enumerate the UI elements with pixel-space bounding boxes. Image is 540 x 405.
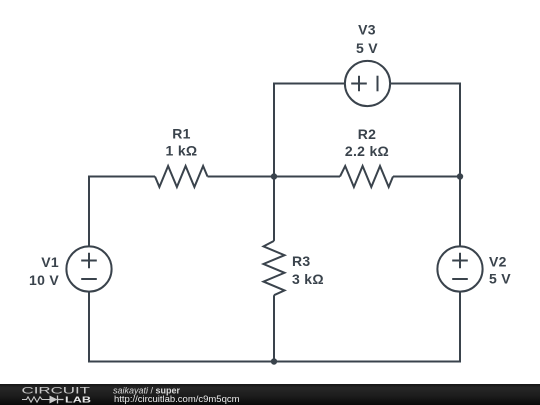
svg-text:R2: R2	[358, 126, 377, 142]
label V1 name	[41, 254, 59, 270]
resistor R3	[264, 241, 285, 295]
label V1 value 10 V	[29, 272, 59, 288]
label R2 value 2.2 kOhm	[345, 143, 389, 159]
wire left branch lower + bottom rail left (V1 bottom to node C)	[89, 292, 274, 362]
wire right branch lower + bottom rail right (V2 bottom to node C)	[274, 292, 460, 362]
wire top-left L (node A up to V3 left lead)	[274, 84, 345, 177]
voltage source V2	[437, 246, 482, 291]
label V2 name	[489, 254, 507, 270]
svg-text:5 V: 5 V	[489, 271, 511, 287]
bar text url	[114, 394, 240, 404]
resistor R1	[155, 166, 208, 187]
wire right branch upper (node B to V2 top)	[459, 177, 461, 247]
svg-text:1 kΩ: 1 kΩ	[166, 143, 198, 159]
CircuitLab logo word CIRCUIT	[22, 386, 91, 397]
svg-text:R1: R1	[172, 126, 191, 142]
voltage source V1	[66, 246, 111, 291]
label R3 name	[292, 253, 311, 269]
node C junction dot	[271, 358, 277, 364]
label R2 name	[358, 126, 377, 142]
CircuitLab logo word LAB	[65, 395, 91, 405]
wire mid rail center (R1 right to R2 left through node A)	[208, 176, 341, 178]
node A junction dot	[271, 173, 277, 179]
node B junction dot	[457, 173, 463, 179]
CircuitLab logo diode	[50, 396, 64, 404]
svg-text:http://circuitlab.com/c9m5qcm: http://circuitlab.com/c9m5qcm	[114, 394, 240, 404]
wire top-right L (V3 right lead down to node B)	[390, 84, 460, 177]
svg-text:10 V: 10 V	[29, 272, 59, 288]
label V2 value 5 V	[489, 271, 511, 287]
svg-text:V1: V1	[41, 254, 59, 270]
svg-text:LAB: LAB	[65, 395, 91, 405]
label R1 value 1 kOhm	[166, 143, 198, 159]
label R1 name	[172, 126, 191, 142]
voltage source V3	[345, 61, 390, 106]
label V3 name	[358, 22, 376, 38]
svg-text:5 V: 5 V	[356, 40, 378, 56]
CircuitLab logo resistor zigzag	[22, 397, 50, 402]
wire middle branch lower (R3 bottom to node C)	[273, 295, 275, 361]
label V3 value 5 V	[356, 40, 378, 56]
resistor R2	[340, 166, 393, 187]
bar text author saikayati / super	[113, 385, 181, 395]
svg-text:R3: R3	[292, 253, 311, 269]
wire middle branch upper (node A to R3 top)	[273, 177, 275, 241]
wire left branch upper (mid rail left end down to V1 top)	[89, 177, 155, 247]
svg-text:2.2 kΩ: 2.2 kΩ	[345, 143, 389, 159]
svg-text:3 kΩ: 3 kΩ	[292, 271, 324, 287]
wire mid rail right (R2 right to node B)	[393, 176, 460, 178]
svg-text:V2: V2	[489, 254, 507, 270]
svg-text:V3: V3	[358, 22, 376, 38]
label R3 value 3 kOhm	[292, 271, 324, 287]
